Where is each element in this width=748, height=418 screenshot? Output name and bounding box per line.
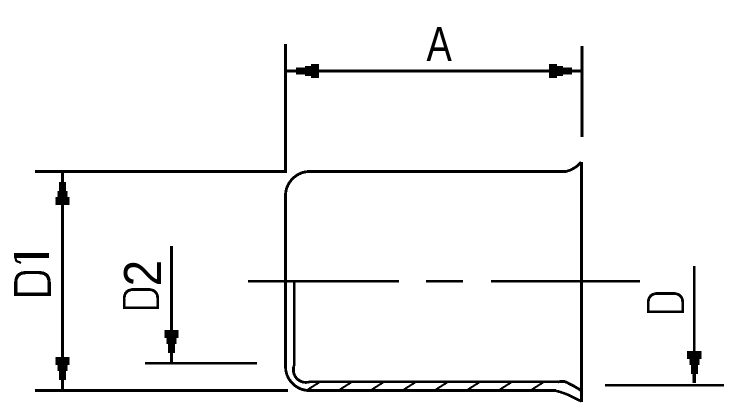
arrowhead A right (549, 64, 581, 78)
arrowhead D down (687, 351, 701, 383)
part bottom-right flare inner (558, 381, 582, 390)
dimension line D1 (61, 172, 64, 389)
arrowhead A left (287, 64, 319, 78)
dimension line D (693, 266, 696, 382)
centerline segment 3 (491, 280, 640, 283)
part bottom-left corner inner (293, 366, 309, 382)
part outline top and left (286, 162, 582, 366)
arrowhead D1 down (55, 357, 69, 389)
hatch lines (308, 383, 543, 390)
extension line A left (284, 44, 287, 173)
centerline segment 1 (248, 280, 399, 283)
arrowhead D2 down (164, 330, 178, 362)
label D (648, 293, 682, 311)
label D1 digit 1 (14, 253, 49, 258)
extension line A right (581, 46, 584, 137)
extension line D (605, 384, 724, 387)
extension line D2 (145, 362, 257, 365)
label D2 letter D (124, 289, 157, 307)
part bottom-left corner outer (285, 366, 309, 391)
svg-text:A: A (427, 17, 453, 72)
svg-text:2: 2 (112, 260, 172, 287)
part bottom-right flare outer (556, 391, 582, 402)
part right edge (580, 162, 583, 402)
dimension line A (287, 70, 581, 73)
label D1 letter D (16, 273, 49, 295)
centerline segment 2 (426, 280, 463, 283)
arrowhead D1 up (55, 173, 69, 205)
part bottom outer line (308, 389, 556, 392)
dimension line D2 (170, 246, 173, 361)
extension line D1 top (35, 170, 286, 173)
part bottom inner line (309, 380, 559, 383)
extension line D1 bottom (35, 389, 288, 392)
part inner left wall (293, 282, 296, 366)
